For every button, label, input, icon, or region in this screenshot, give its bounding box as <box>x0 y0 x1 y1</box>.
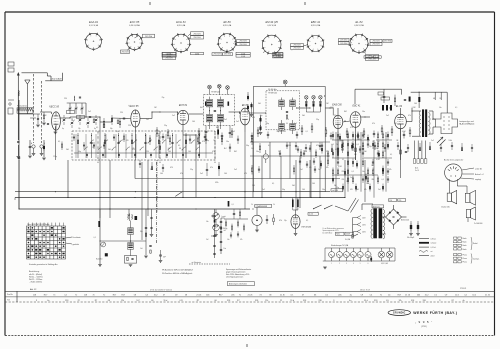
dial lamps row <box>325 244 395 265</box>
ground bus wires lower left <box>15 140 345 213</box>
svg-text:118: 118 <box>33 294 36 296</box>
svg-text:C9: C9 <box>175 294 177 296</box>
EL84 grid components <box>394 95 406 106</box>
pickup (Tonabnehmer) label box <box>255 205 272 208</box>
svg-text:30p: 30p <box>140 231 143 233</box>
tuner components row <box>89 117 125 128</box>
audio section component field <box>332 132 393 198</box>
svg-text:66: 66 <box>151 300 153 302</box>
svg-text:5k6: 5k6 <box>385 136 388 138</box>
svg-text:Radio: Radio <box>463 245 467 247</box>
lamp note text <box>323 227 344 235</box>
output transformer windings <box>412 108 430 136</box>
left drop wire parts <box>150 209 154 236</box>
svg-text:21 J6: 21 J6 <box>280 294 285 296</box>
svg-text:30p: 30p <box>467 123 470 125</box>
svg-text:0,1: 0,1 <box>58 141 60 143</box>
EM34 feed resistors <box>292 198 299 210</box>
primary taps <box>345 216 367 242</box>
tube socket ECC 85 pinout <box>126 20 144 51</box>
svg-text:25μ: 25μ <box>284 220 287 222</box>
antenna input wires <box>22 73 63 81</box>
svg-text:220: 220 <box>342 171 345 173</box>
speaker wiring <box>437 137 468 222</box>
svg-text:220: 220 <box>128 125 131 127</box>
svg-text:2V0 3Vd: 2V0 3Vd <box>145 36 152 38</box>
svg-text:5k6: 5k6 <box>66 149 69 151</box>
svg-text:10n: 10n <box>366 183 369 185</box>
svg-text:100: 100 <box>312 183 315 185</box>
svg-text:EL 84: EL 84 <box>396 105 403 108</box>
svg-text:47k: 47k <box>304 151 307 153</box>
svg-text:Netz: Netz <box>336 233 340 236</box>
svg-text:R17: R17 <box>44 294 48 296</box>
svg-text:R7: R7 <box>95 300 97 302</box>
svg-text:318: 318 <box>422 300 425 302</box>
svg-text:30p: 30p <box>110 128 113 130</box>
svg-text:5k6: 5k6 <box>251 148 254 150</box>
svg-text:10n: 10n <box>226 141 229 143</box>
svg-text:5k6: 5k6 <box>377 141 380 143</box>
svg-text:0 4Vd: 0 4Vd <box>276 56 280 58</box>
svg-text:2n2: 2n2 <box>200 173 203 175</box>
svg-text:2V0 3Vd: 2V0 3Vd <box>122 52 129 54</box>
svg-text:100: 100 <box>192 121 195 123</box>
svg-text:47k: 47k <box>279 220 282 222</box>
svg-text:1k: 1k <box>273 204 275 206</box>
output top rail <box>381 92 447 113</box>
svg-text:58 121 76 19: 58 121 76 19 <box>360 289 370 291</box>
svg-text:25p: 25p <box>164 125 167 127</box>
svg-text:12k: 12k <box>398 300 401 302</box>
svg-text:10n: 10n <box>362 111 365 113</box>
tube V6 EL84 <box>395 105 407 129</box>
svg-text:2n2: 2n2 <box>318 169 321 171</box>
svg-text:5k6: 5k6 <box>346 136 349 138</box>
svg-text:II u.IV: II u.IV <box>415 170 419 172</box>
svg-text:0 4Vd: 0 4Vd <box>195 53 199 55</box>
output transformer core <box>422 109 427 137</box>
tube socket EM 34 (35 pinout <box>262 20 282 55</box>
svg-text:6,3 V 0,3A: 6,3 V 0,3A <box>89 24 99 27</box>
decoupling capacitors column <box>247 92 249 114</box>
speaker terminal plate <box>436 113 475 134</box>
svg-text:R17: R17 <box>219 294 223 296</box>
svg-text:Phono: Phono <box>463 258 468 260</box>
svg-text:318: 318 <box>255 300 258 302</box>
svg-text:2V0 3Vd: 2V0 3Vd <box>294 45 301 47</box>
svg-text:ZF-Durchlass 460 kHz ±2 AM-Ab: ZF-Durchlass 460 kHz ±2 AM-Abgleich <box>161 272 192 275</box>
svg-text:Bestückung:: Bestückung: <box>29 270 40 273</box>
svg-text:2n2: 2n2 <box>278 151 281 153</box>
tube socket EBC 41 pinout <box>307 20 325 52</box>
IF1 trimmers <box>208 84 230 94</box>
svg-text:47 63 102 150 85 97 203 114: 47 63 102 150 85 97 203 114 <box>150 289 172 291</box>
svg-text:470: 470 <box>244 173 247 175</box>
svg-text:2V0 3Vd: 2V0 3Vd <box>194 33 201 35</box>
svg-text:EAB C80: EAB C80 <box>332 104 342 107</box>
svg-text:ohne Signal gemessen: ohne Signal gemessen <box>226 277 243 279</box>
svg-text:2n2: 2n2 <box>172 115 175 117</box>
signal path junction dots <box>69 95 433 135</box>
svg-text:2n2: 2n2 <box>234 169 237 171</box>
svg-text:25p: 25p <box>276 131 279 133</box>
svg-text:2n2: 2n2 <box>88 111 91 113</box>
svg-text:EBC 41: EBC 41 <box>311 20 321 24</box>
svg-text:„ 9 9 5 “: „ 9 9 5 “ <box>415 320 433 324</box>
svg-text:25p: 25p <box>190 169 193 171</box>
svg-text:118: 118 <box>84 294 87 296</box>
svg-text:Spannungen mit Röhrenvoltmeter: Spannungen mit Röhrenvoltmeter <box>226 268 252 271</box>
svg-text:47: 47 <box>302 294 304 296</box>
svg-text:47: 47 <box>163 294 165 296</box>
svg-text:gedrückt: gedrückt <box>73 243 80 246</box>
svg-text:2V0 3Vd: 2V0 3Vd <box>369 59 376 61</box>
svg-text:7e: 7e <box>380 294 382 296</box>
svg-text:8k2: 8k2 <box>382 157 385 159</box>
svg-text:47k: 47k <box>212 151 215 153</box>
tube V7 EM34 magic eye <box>291 210 312 235</box>
svg-text:50μ: 50μ <box>246 145 249 147</box>
svg-text:10.2: 10.2 <box>472 294 476 296</box>
svg-text:470: 470 <box>170 167 173 169</box>
svg-text:240Ω 2xA08: 240Ω 2xA08 <box>51 78 63 81</box>
svg-text:2n2: 2n2 <box>168 148 171 150</box>
svg-text:0 4Vd: 0 4Vd <box>366 57 370 59</box>
maker name <box>413 311 457 315</box>
bridge rectifier <box>381 205 410 229</box>
svg-text:0,1: 0,1 <box>305 131 307 133</box>
svg-text:10n: 10n <box>439 107 442 109</box>
svg-text:100: 100 <box>224 173 227 175</box>
speaker 2 <box>465 190 475 205</box>
svg-text:0,1: 0,1 <box>332 144 334 146</box>
svg-text:R17: R17 <box>113 294 117 296</box>
tone switch capacitor chains <box>189 209 230 264</box>
svg-text:6p: 6p <box>62 128 64 130</box>
mains switch on volume pot <box>308 198 359 216</box>
svg-text:WERKE FÜRTH (BAY.): WERKE FÜRTH (BAY.) <box>413 311 457 315</box>
svg-text:318: 318 <box>411 300 414 302</box>
svg-text:…Rollen 250Vms: …Rollen 250Vms <box>29 282 42 284</box>
AGC line components <box>156 123 411 141</box>
detector wiring <box>325 108 370 134</box>
wires antenna to tuner <box>18 93 40 209</box>
tone network cluster <box>224 219 248 241</box>
svg-text:25p: 25p <box>260 115 263 117</box>
svg-text:21 J6: 21 J6 <box>485 294 490 296</box>
long vertical drop wires <box>19 100 365 218</box>
svg-text:0,5 CuL: 0,5 CuL <box>431 247 437 249</box>
push-button legend table <box>27 223 66 259</box>
svg-text:0,1: 0,1 <box>94 237 96 239</box>
svg-text:2n2: 2n2 <box>431 140 434 142</box>
svg-text:Radiol: Radiol <box>473 243 478 245</box>
svg-text:50μ: 50μ <box>266 123 269 125</box>
svg-text:100k: 100k <box>448 140 452 142</box>
svg-text:6,3V 0,3A: 6,3V 0,3A <box>177 24 186 27</box>
svg-text:GRUNDIG: GRUNDIG <box>393 313 406 315</box>
svg-text:58: 58 <box>185 294 187 296</box>
svg-text:25p: 25p <box>334 115 337 117</box>
antenna coil L1 <box>17 91 20 96</box>
svg-text:Netz: Netz <box>383 233 387 236</box>
svg-text:47k: 47k <box>180 173 183 175</box>
AF preamp parts cluster <box>297 145 329 171</box>
alignment note lines <box>161 269 193 275</box>
svg-text:0,1: 0,1 <box>272 183 274 185</box>
tube V2 ECH81 <box>177 104 188 125</box>
svg-text:10.2: 10.2 <box>425 294 429 296</box>
svg-text:55 d: 55 d <box>290 300 294 302</box>
svg-text:EL 84: EL 84 <box>356 20 363 24</box>
revision table rules <box>5 291 495 302</box>
svg-text:6,3V 0,2A: 6,3V 0,2A <box>223 24 232 27</box>
svg-text:47k: 47k <box>326 167 329 169</box>
svg-text:0,1: 0,1 <box>455 107 457 109</box>
svg-text:EAA 91: EAA 91 <box>89 20 99 24</box>
svg-text:100: 100 <box>188 151 191 153</box>
tube V4 EABC80 <box>332 104 343 129</box>
svg-text:2V0 3Vd: 2V0 3Vd <box>373 41 380 43</box>
svg-text:HF-Bandbreite 9kHz bei 30% AM-: HF-Bandbreite 9kHz bei 30% AM-Abfall <box>162 269 193 272</box>
svg-text:50: 50 <box>286 123 288 125</box>
svg-text:5nF: 5nF <box>163 257 166 259</box>
svg-text:2V0 3Vd: 2V0 3Vd <box>384 41 391 43</box>
rail junction dots <box>18 197 345 210</box>
svg-text:Drucktaste: Drucktaste <box>73 236 81 239</box>
volume potentiometer (tandem) <box>206 162 241 236</box>
IF module solid box <box>253 87 325 192</box>
svg-text:205: 205 <box>231 294 234 296</box>
svg-text:220: 220 <box>120 112 123 114</box>
svg-text:220: 220 <box>64 98 67 100</box>
svg-text:5k6: 5k6 <box>356 189 359 191</box>
svg-text:2x0,8: 2x0,8 <box>431 256 435 258</box>
GRUNDIG logo <box>388 310 410 316</box>
svg-text:2n2: 2n2 <box>146 119 149 121</box>
IF section lower components <box>149 135 261 153</box>
svg-text:21 J6: 21 J6 <box>196 294 201 296</box>
svg-text:470: 470 <box>132 148 135 150</box>
switch bank components <box>74 131 215 163</box>
svg-text:55 d: 55 d <box>364 300 368 302</box>
svg-text:0,8 CuL: 0,8 CuL <box>431 238 437 240</box>
svg-text:66: 66 <box>314 294 316 296</box>
svg-text:7e: 7e <box>93 294 95 296</box>
tube V1 ECC85 a <box>49 105 60 131</box>
svg-text:Radio: Radio <box>463 238 467 240</box>
IF module trimmers <box>283 80 322 112</box>
FM trimmer row <box>62 115 121 130</box>
svg-text:6,3V 0,23A: 6,3V 0,23A <box>311 24 321 27</box>
measurement point label boxes <box>162 51 381 59</box>
svg-text:50: 50 <box>313 97 315 99</box>
svg-text:318: 318 <box>318 300 321 302</box>
svg-text:To 1006 /66: To 1006 /66 <box>474 223 482 225</box>
svg-text:R7: R7 <box>237 300 239 302</box>
svg-text:100: 100 <box>118 141 121 143</box>
svg-text:220: 220 <box>398 200 401 202</box>
svg-text:(2751): (2751) <box>421 326 427 328</box>
speaker 3 <box>466 207 482 225</box>
svg-text:8k2: 8k2 <box>224 148 227 150</box>
svg-text:8k2: 8k2 <box>216 127 219 129</box>
svg-text:EM 34 (35: EM 34 (35 <box>265 20 278 24</box>
power transformer windings <box>371 209 385 239</box>
svg-text:220: 220 <box>342 179 345 181</box>
svg-text:2V0 3Vd: 2V0 3Vd <box>240 41 247 43</box>
svg-text:1k: 1k <box>317 212 319 214</box>
svg-text:470: 470 <box>316 145 319 147</box>
svg-text:0,1: 0,1 <box>268 145 270 147</box>
ferrite rod antenna <box>17 105 33 114</box>
svg-text:4n7: 4n7 <box>224 230 227 232</box>
svg-text:0.1: 0.1 <box>325 294 328 296</box>
svg-text:Buchse1 u.2: Buchse1 u.2 <box>475 174 484 176</box>
svg-text:ZF 460 kHz: ZF 460 kHz <box>268 89 277 91</box>
svg-text:220: 220 <box>346 181 349 183</box>
IF1 winding stacks <box>205 97 229 129</box>
svg-text:5k6: 5k6 <box>302 115 305 117</box>
svg-text:25p: 25p <box>316 119 319 121</box>
svg-text:66: 66 <box>108 300 110 302</box>
service note block <box>226 268 254 286</box>
svg-text:470: 470 <box>126 140 129 142</box>
svg-text:10.2: 10.2 <box>154 294 158 296</box>
svg-text:12p: 12p <box>78 128 81 130</box>
svg-text:10n: 10n <box>362 171 365 173</box>
svg-text:1a 1b: 1a 1b <box>309 214 313 216</box>
svg-text:2n2: 2n2 <box>378 189 381 191</box>
output transformer secondary wires <box>413 141 427 173</box>
svg-text:Pos.Nr.: Pos.Nr. <box>7 294 13 296</box>
svg-text:2,5M log: 2,5M log <box>222 228 228 230</box>
IF wiring <box>245 108 310 132</box>
svg-text:5k6: 5k6 <box>364 151 367 153</box>
svg-text:58: 58 <box>134 294 136 296</box>
svg-text:Abb. 3/2: Abb. 3/2 <box>30 288 36 291</box>
svg-text:10n: 10n <box>224 248 227 250</box>
svg-text:Netz 220V~ Abweichung ±15%: Netz 220V~ Abweichung ±15% <box>226 273 250 276</box>
svg-text:2V0 3Vd: 2V0 3Vd <box>166 58 173 60</box>
svg-text:50: 50 <box>213 140 215 142</box>
svg-text:0,1: 0,1 <box>96 127 98 129</box>
svg-text:220p: 220p <box>340 140 344 142</box>
svg-text:7e: 7e <box>239 294 241 296</box>
power transformer core <box>372 205 384 238</box>
svg-text:2n2: 2n2 <box>300 169 303 171</box>
svg-text:318: 318 <box>227 300 230 302</box>
svg-text:205: 205 <box>338 294 341 296</box>
svg-text:470: 470 <box>252 117 255 119</box>
front-end lower components <box>61 133 124 150</box>
svg-text:47k: 47k <box>350 127 353 129</box>
svg-text:47k: 47k <box>240 239 243 241</box>
svg-text:Phono: Phono <box>463 262 468 264</box>
svg-text:9: 9 <box>36 300 37 302</box>
svg-text:318: 318 <box>65 300 68 302</box>
tube V3 EF89 <box>240 104 250 125</box>
svg-text:30p: 30p <box>116 131 119 133</box>
svg-text:12k: 12k <box>121 300 124 302</box>
svg-text:2V0 3Vd: 2V0 3Vd <box>373 44 380 46</box>
svg-text:0.5: 0.5 <box>386 300 389 302</box>
svg-text:220p: 220p <box>375 148 379 150</box>
svg-text:R17: R17 <box>121 294 125 296</box>
svg-text:10n: 10n <box>256 151 259 153</box>
svg-text:0.1: 0.1 <box>434 294 437 296</box>
svg-text:107: 107 <box>136 300 139 302</box>
filter capacitors <box>407 221 420 239</box>
svg-text:0,1: 0,1 <box>357 144 359 146</box>
svg-text:220p: 220p <box>53 156 57 158</box>
tube V1 ECC85 b <box>129 104 140 127</box>
tube V5 EBC41 <box>350 104 361 127</box>
svg-text:2n2: 2n2 <box>236 121 239 123</box>
svg-text:Kontakte gezeichnet in Stellun: Kontakte gezeichnet in Stellung Aus <box>29 263 58 266</box>
svg-text:47k: 47k <box>389 169 392 171</box>
dipole symbol <box>25 80 30 100</box>
svg-text:100: 100 <box>288 145 291 147</box>
svg-text:2n2: 2n2 <box>294 123 297 125</box>
svg-text:10n: 10n <box>206 221 209 223</box>
svg-text:47k: 47k <box>372 123 375 125</box>
svg-text:470: 470 <box>432 119 435 121</box>
speaker connector legend <box>454 237 480 264</box>
svg-text:0 4Vd: 0 4Vd <box>241 56 245 58</box>
svg-text:10.2: 10.2 <box>455 294 459 296</box>
tube socket EL 84 pinout <box>349 20 370 54</box>
svg-text:7e: 7e <box>103 294 105 296</box>
svg-text:5k6: 5k6 <box>108 149 111 151</box>
svg-text:ECH 81: ECH 81 <box>176 20 186 24</box>
mains label <box>336 232 387 237</box>
svg-text:318: 318 <box>303 300 306 302</box>
IF transformer can 1 (dashed) <box>204 92 235 126</box>
svg-text:470k: 470k <box>215 182 219 184</box>
svg-text:220: 220 <box>358 139 361 141</box>
svg-text:0 4Vd: 0 4Vd <box>375 57 379 59</box>
svg-text:12k: 12k <box>265 300 268 302</box>
svg-text:2n2: 2n2 <box>386 115 389 117</box>
svg-text:2n2: 2n2 <box>262 189 265 191</box>
svg-text:0,1: 0,1 <box>306 220 308 222</box>
svg-text:Radio: Radio <box>463 242 467 244</box>
IF transformer can 2 (dashed) <box>266 91 300 130</box>
wiring EL84 to transformer <box>406 111 435 134</box>
tube socket EAA 91 pinout <box>84 20 103 51</box>
table footnote <box>29 263 58 266</box>
svg-text:EM 34 (35: EM 34 (35 <box>302 226 312 229</box>
parts list text block <box>29 270 43 284</box>
svg-text:C41: C41 <box>179 300 183 302</box>
tuner trimmer network <box>67 96 87 119</box>
svg-text:2n2: 2n2 <box>72 120 75 122</box>
svg-text:10n: 10n <box>322 189 325 191</box>
table callouts <box>66 236 81 246</box>
svg-text:6,3V 0,2A: 6,3V 0,2A <box>268 24 277 27</box>
tube cathode drop wires <box>55 129 407 178</box>
svg-text:B250 C100: B250 C100 <box>401 220 409 222</box>
svg-text:470: 470 <box>350 189 353 191</box>
svg-text:R7: R7 <box>452 300 454 302</box>
svg-text:30p: 30p <box>86 123 89 125</box>
svg-text:C9: C9 <box>445 294 447 296</box>
svg-text:6,3V 0,76A: 6,3V 0,76A <box>354 24 364 27</box>
svg-text:58: 58 <box>269 294 271 296</box>
svg-text:47k: 47k <box>364 189 367 191</box>
